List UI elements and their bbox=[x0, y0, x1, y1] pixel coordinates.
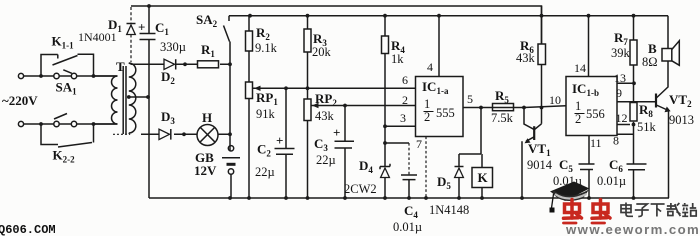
svg-text:1N4148: 1N4148 bbox=[429, 203, 469, 217]
svg-text:9014: 9014 bbox=[527, 158, 553, 172]
svg-text:C2: C2 bbox=[257, 142, 271, 159]
svg-text:1: 1 bbox=[424, 97, 430, 111]
svg-text:3: 3 bbox=[400, 111, 406, 125]
svg-text:43k: 43k bbox=[315, 109, 335, 123]
svg-text:R8: R8 bbox=[639, 102, 653, 119]
svg-text:IC1-a: IC1-a bbox=[422, 79, 449, 96]
svg-text:C4: C4 bbox=[404, 203, 418, 220]
svg-text:Q606.COM: Q606.COM bbox=[0, 223, 56, 236]
svg-text:5: 5 bbox=[467, 92, 473, 106]
svg-text:4: 4 bbox=[427, 60, 433, 74]
svg-text:0.01µ: 0.01µ bbox=[597, 174, 626, 188]
svg-text:C6: C6 bbox=[609, 157, 623, 174]
svg-text:D2: D2 bbox=[161, 69, 175, 86]
svg-text:22µ: 22µ bbox=[316, 153, 336, 167]
svg-text:7: 7 bbox=[416, 137, 422, 151]
svg-text:555: 555 bbox=[436, 106, 455, 120]
svg-text:SA1: SA1 bbox=[56, 80, 78, 97]
svg-text:556: 556 bbox=[586, 107, 605, 121]
svg-text:VT1: VT1 bbox=[528, 141, 551, 158]
svg-text:14: 14 bbox=[574, 61, 586, 75]
svg-text:RP2: RP2 bbox=[315, 91, 337, 108]
svg-text:IC1-b: IC1-b bbox=[572, 81, 599, 98]
svg-text:SA2: SA2 bbox=[196, 12, 218, 29]
svg-text:2: 2 bbox=[402, 93, 408, 107]
svg-text:D3: D3 bbox=[161, 109, 175, 126]
svg-text:T: T bbox=[116, 59, 125, 74]
svg-text:22µ: 22µ bbox=[255, 165, 275, 179]
svg-text:D1: D1 bbox=[108, 17, 122, 34]
svg-text:R1: R1 bbox=[201, 42, 215, 59]
svg-text:43k: 43k bbox=[516, 51, 536, 65]
svg-text:www.eeworm.com: www.eeworm.com bbox=[565, 222, 700, 236]
svg-text:7.5k: 7.5k bbox=[491, 111, 514, 125]
svg-text:1N4001: 1N4001 bbox=[78, 30, 117, 44]
svg-text:VT2: VT2 bbox=[669, 92, 692, 109]
svg-text:0.01µ: 0.01µ bbox=[393, 220, 422, 234]
svg-text:9.1k: 9.1k bbox=[255, 41, 278, 55]
svg-text:10: 10 bbox=[549, 93, 561, 107]
svg-text:13: 13 bbox=[614, 71, 626, 85]
svg-text:C3: C3 bbox=[314, 136, 328, 153]
svg-text:2: 2 bbox=[424, 110, 430, 124]
svg-text:K1-1: K1-1 bbox=[52, 34, 75, 51]
svg-text:2: 2 bbox=[575, 112, 581, 126]
svg-text:330µ: 330µ bbox=[160, 40, 186, 54]
svg-text:8: 8 bbox=[613, 134, 619, 148]
svg-text:12: 12 bbox=[616, 111, 628, 125]
svg-text:R7: R7 bbox=[614, 30, 628, 47]
svg-text:12V: 12V bbox=[194, 163, 217, 178]
svg-text:D5: D5 bbox=[437, 174, 451, 191]
svg-text:H: H bbox=[202, 110, 212, 125]
svg-text:9013: 9013 bbox=[669, 113, 694, 127]
svg-text:C5: C5 bbox=[559, 157, 573, 174]
svg-text:C1: C1 bbox=[155, 20, 169, 37]
svg-text:D4: D4 bbox=[359, 158, 373, 175]
svg-text:11: 11 bbox=[590, 136, 602, 150]
svg-text:2CW2: 2CW2 bbox=[344, 182, 377, 196]
svg-text:+: + bbox=[138, 20, 145, 35]
svg-text:R2: R2 bbox=[256, 25, 270, 42]
svg-text:+: + bbox=[333, 125, 340, 140]
svg-text:B: B bbox=[648, 41, 657, 56]
svg-text:~220V: ~220V bbox=[2, 93, 38, 108]
svg-text:6: 6 bbox=[402, 73, 408, 87]
svg-text:R5: R5 bbox=[495, 88, 509, 105]
svg-text:1: 1 bbox=[575, 99, 581, 113]
svg-text:K2-2: K2-2 bbox=[53, 148, 76, 165]
svg-text:91k: 91k bbox=[256, 107, 276, 121]
svg-text:51k: 51k bbox=[637, 120, 657, 134]
svg-text:20k: 20k bbox=[312, 45, 332, 59]
svg-text:1k: 1k bbox=[391, 52, 404, 66]
svg-text:K: K bbox=[478, 170, 489, 185]
svg-text:9: 9 bbox=[616, 86, 622, 100]
svg-text:8Ω: 8Ω bbox=[642, 55, 658, 69]
svg-text:RP1: RP1 bbox=[256, 90, 278, 107]
svg-text:39k: 39k bbox=[611, 46, 631, 60]
svg-text:+: + bbox=[276, 133, 283, 148]
